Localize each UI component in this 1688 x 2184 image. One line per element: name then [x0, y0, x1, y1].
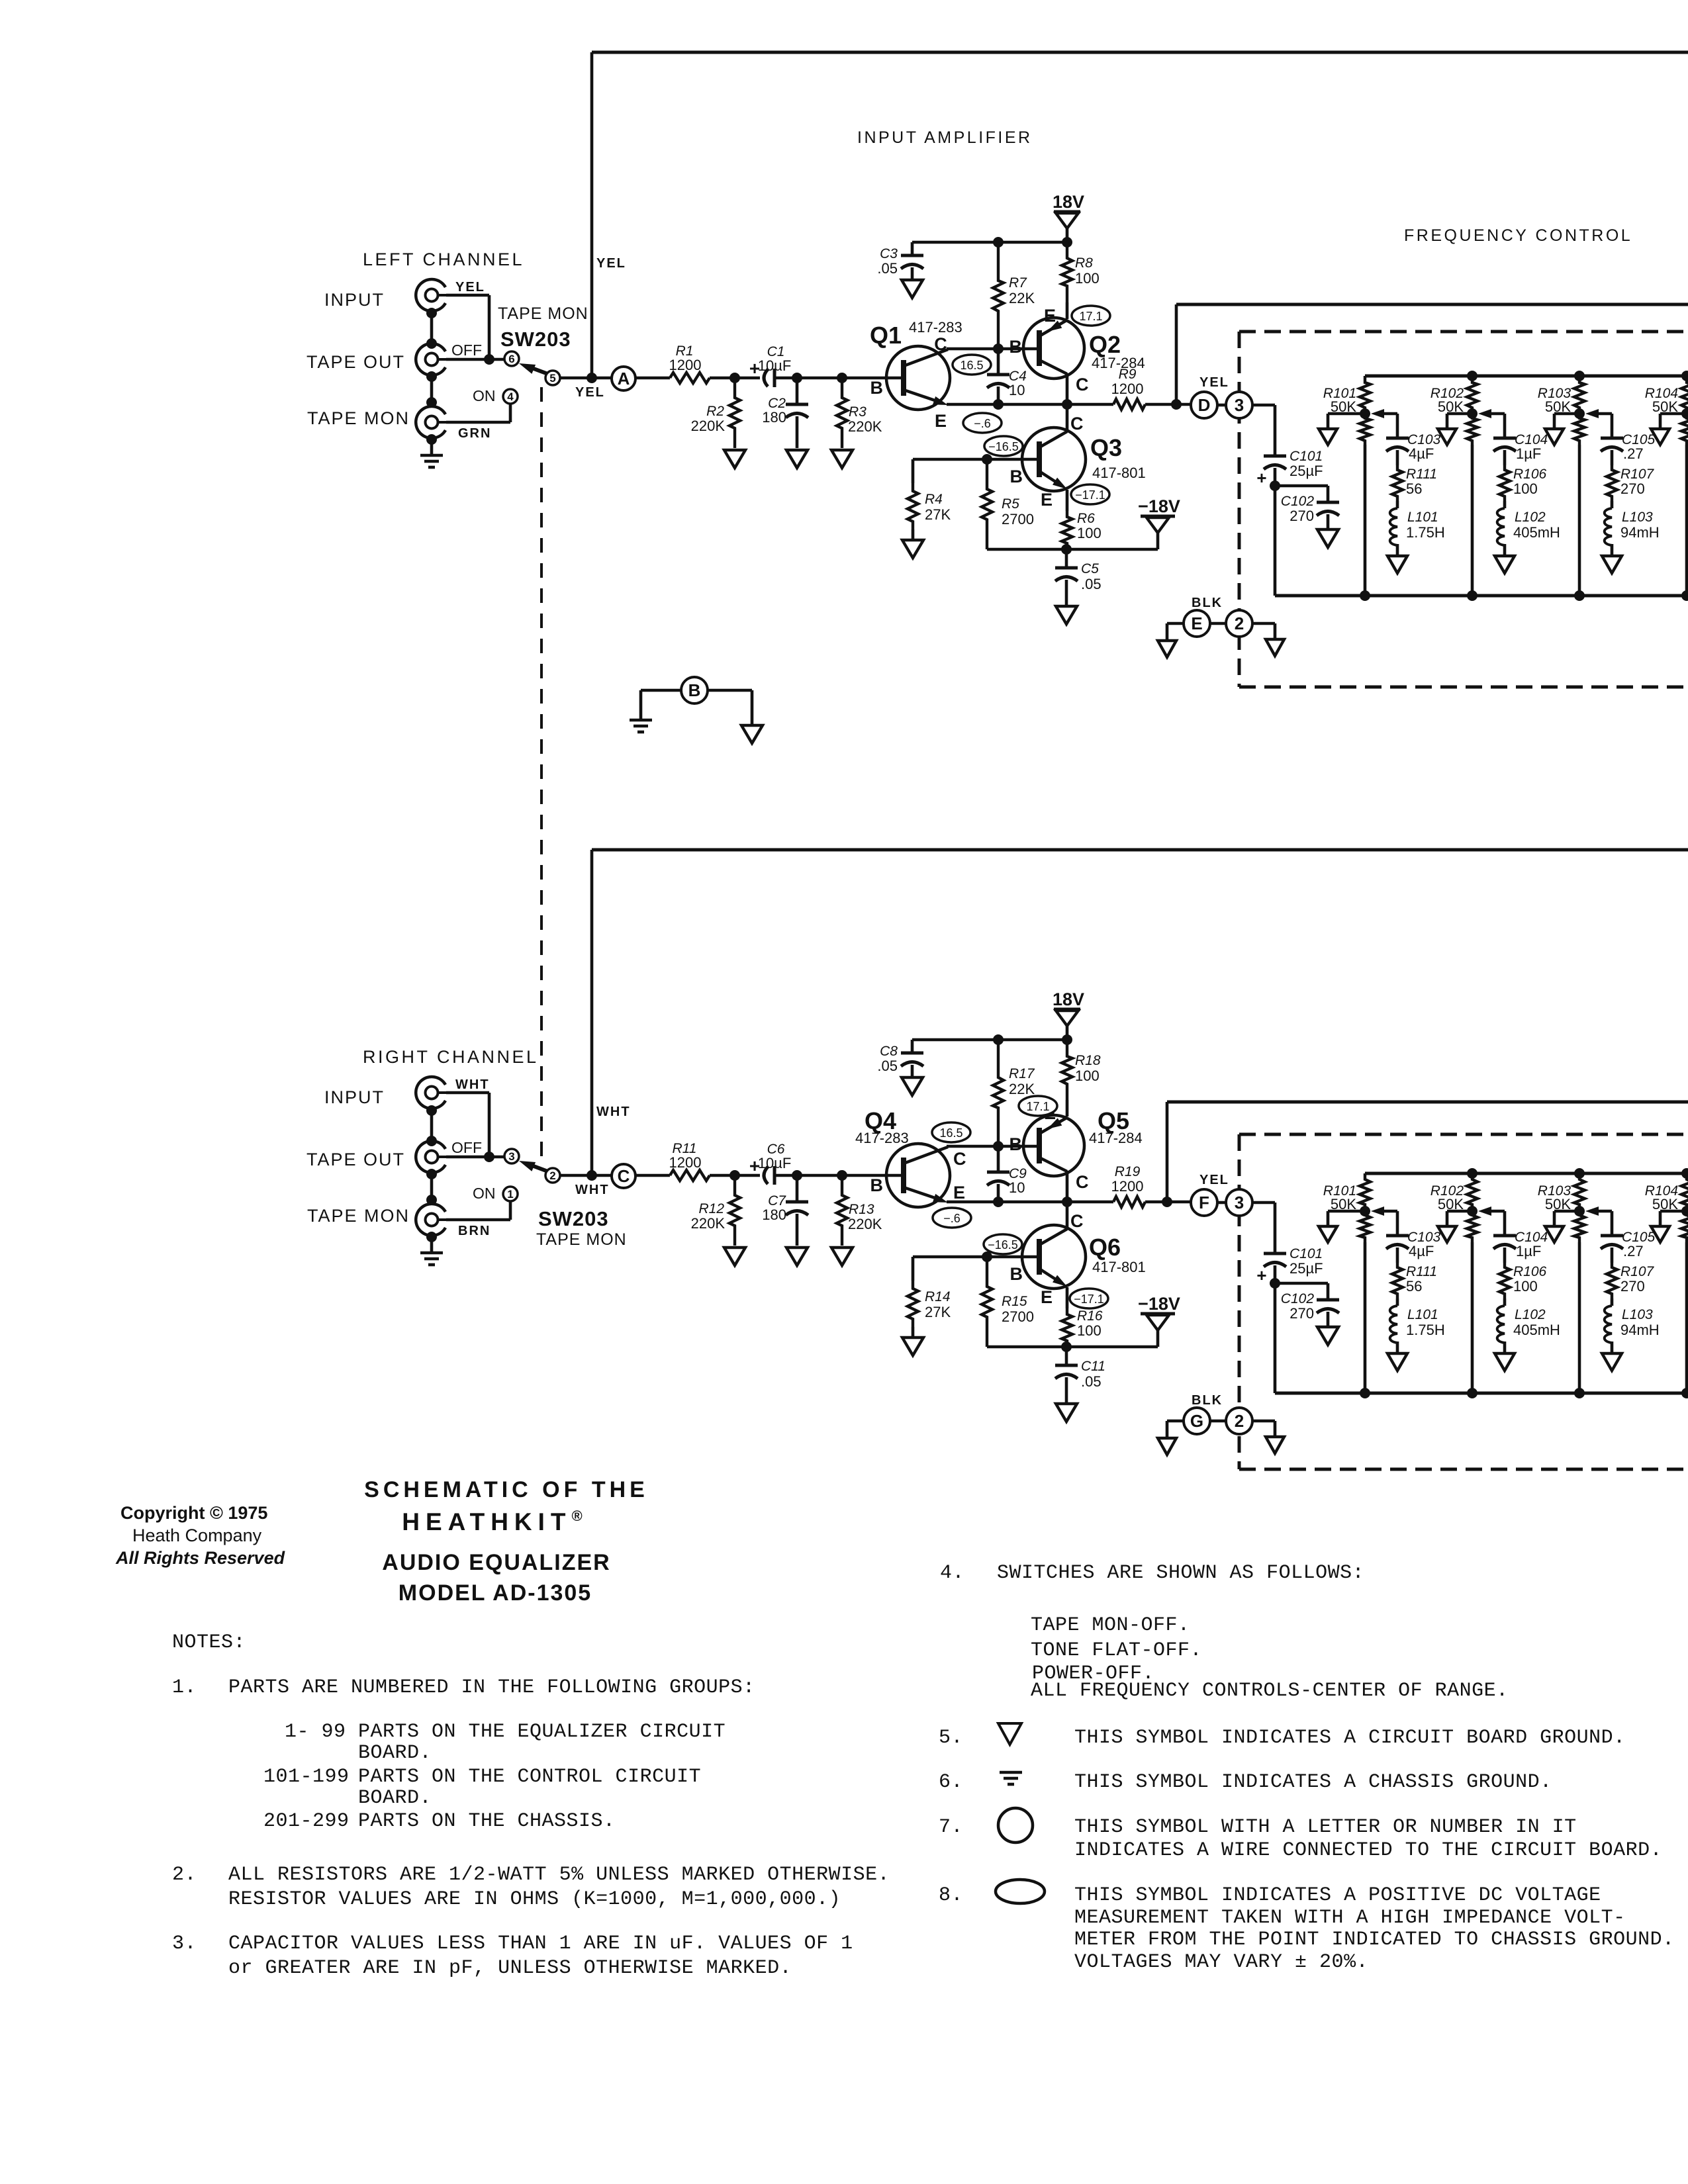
circuit board ground below L103 [1602, 1353, 1622, 1371]
svg-text:5.: 5. [939, 1727, 963, 1749]
svg-text:220K: 220K [848, 418, 882, 435]
potentiometer R104 50K [1681, 371, 1688, 381]
svg-text:INPUT AMPLIFIER: INPUT AMPLIFIER [857, 128, 1033, 147]
svg-text:BOARD.: BOARD. [358, 1787, 432, 1809]
wire Q4 emitter line [947, 1201, 1039, 1204]
svg-text:B: B [1009, 1134, 1023, 1154]
svg-text:C: C [953, 1149, 966, 1169]
svg-text:RESISTOR VALUES ARE IN OHMS (K: RESISTOR VALUES ARE IN OHMS (K=1000, M=1… [228, 1888, 841, 1911]
svg-text:C: C [1076, 1172, 1089, 1192]
svg-text:ALL RESISTORS ARE 1/2-WATT 5%: ALL RESISTORS ARE 1/2-WATT 5% UNLESS MAR… [228, 1864, 890, 1886]
svg-text:B: B [1009, 337, 1023, 357]
svg-text:L102: L102 [1515, 1307, 1546, 1322]
wire Q4 collector line [947, 1145, 1037, 1148]
svg-text:BLK: BLK [1192, 596, 1223, 610]
capacitor C1 10uF [764, 369, 768, 387]
svg-text:6: 6 [508, 353, 514, 365]
wire tape out jack to contact [446, 358, 504, 361]
circuit board ground below L101 [1387, 556, 1407, 573]
capacitor C104 1µF [1493, 1234, 1516, 1238]
svg-text:C: C [1070, 414, 1084, 433]
chassis ground below node B [630, 719, 652, 722]
svg-text:WHT: WHT [455, 1077, 490, 1092]
svg-text:OFF: OFF [451, 341, 482, 359]
resistor R106 100 [1499, 465, 1510, 501]
svg-text:TAPE OUT: TAPE OUT [306, 1150, 405, 1169]
circuit board ground below C3 [902, 280, 923, 298]
svg-text:TAPE OUT: TAPE OUT [306, 352, 405, 372]
chassis ground below jacks [420, 1251, 443, 1255]
svg-text:RIGHT CHANNEL: RIGHT CHANNEL [363, 1047, 539, 1067]
svg-text:R4: R4 [925, 492, 943, 507]
resistor R11 1200 [670, 1170, 710, 1181]
svg-text:1: 1 [507, 1188, 513, 1201]
svg-text:TONE FLAT-OFF.: TONE FLAT-OFF. [1031, 1639, 1202, 1662]
dashed switch linkage SW203 [540, 387, 543, 1166]
wire contact ON to tape mon jack [509, 1201, 512, 1220]
circuit board ground below C102 [1317, 529, 1338, 547]
svg-text:27K: 27K [925, 506, 951, 523]
wire -18V to junction [1066, 1345, 1158, 1349]
svg-text:.27: .27 [1623, 1243, 1644, 1259]
wire node F to 3 [1217, 1201, 1226, 1205]
node E [1184, 610, 1210, 637]
svg-text:HEATHKIT®: HEATHKIT® [402, 1508, 588, 1535]
svg-text:1.75H: 1.75H [1406, 1322, 1445, 1338]
svg-text:.05: .05 [1081, 1373, 1102, 1390]
capacitor C5 .05 [1065, 549, 1068, 568]
wire node 3 to C101 [1252, 404, 1275, 407]
wire Q5 emitter to R18 [1066, 1100, 1069, 1116]
svg-text:270: 270 [1620, 1278, 1645, 1295]
wire top feedback line right channel [592, 848, 1688, 852]
svg-text:10: 10 [1009, 382, 1025, 398]
circuit board ground below C11 [1056, 1404, 1077, 1422]
wire output feedback vertical [1175, 304, 1178, 404]
svg-text:B: B [1010, 467, 1023, 486]
wire C6 to Q4 base [774, 1174, 901, 1177]
svg-text:.27: .27 [1623, 445, 1644, 462]
wire vertical from top line to switch node [590, 850, 594, 1175]
resistor R6 100 [1062, 511, 1072, 549]
potentiometer R101 50K [1360, 1173, 1370, 1211]
capacitor C4 10 [997, 349, 1000, 375]
resistor R12 220K [729, 1175, 740, 1246]
svg-text:BOARD.: BOARD. [358, 1742, 432, 1764]
svg-text:+: + [1256, 468, 1266, 488]
svg-text:−17.1: −17.1 [1075, 488, 1105, 502]
wire node D to 3 [1217, 404, 1226, 407]
circuit board ground below L102 [1495, 1353, 1515, 1371]
capacitor C102 270 [1317, 501, 1339, 504]
jack INPUT [416, 279, 445, 311]
svg-text:R9: R9 [1119, 367, 1137, 382]
voltage -16.5 [984, 436, 1023, 456]
voltage -16.5 [984, 1234, 1022, 1254]
svg-text:417-284: 417-284 [1089, 1130, 1143, 1146]
wire wiper to C103 [1384, 1210, 1397, 1213]
node 2 [1226, 1408, 1252, 1434]
svg-text:405mH: 405mH [1513, 524, 1560, 541]
svg-text:C8: C8 [880, 1044, 898, 1059]
svg-text:220K: 220K [691, 1215, 726, 1232]
wire Q2 collector down [1066, 373, 1069, 404]
capacitor C7 180 [796, 1175, 799, 1202]
wire wiper left ground R102 [1447, 412, 1472, 416]
svg-text:YEL: YEL [596, 256, 626, 271]
svg-text:NOTES:: NOTES: [172, 1631, 246, 1654]
switch SW203 blade [528, 367, 551, 375]
svg-text:E: E [1044, 306, 1056, 326]
svg-text:THIS SYMBOL WITH A LETTER OR N: THIS SYMBOL WITH A LETTER OR NUMBER IN I… [1074, 1816, 1577, 1839]
wire tape out jack to contact [446, 1156, 504, 1159]
wire Q1 emitter line [947, 403, 1039, 406]
svg-text:YEL: YEL [1199, 375, 1229, 390]
wiper resistor lower half R103 [1574, 1211, 1585, 1242]
svg-text:or GREATER ARE IN pF, UNLESS O: or GREATER ARE IN pF, UNLESS OTHERWISE M… [228, 1957, 792, 1979]
node D [1191, 392, 1217, 418]
svg-text:R13: R13 [849, 1202, 874, 1217]
svg-text:D: D [1198, 395, 1211, 415]
svg-text:LEFT CHANNEL: LEFT CHANNEL [363, 250, 524, 269]
wire Q6 collector up [1066, 1202, 1069, 1228]
capacitor C101 25uF [1264, 455, 1286, 458]
svg-text:C11: C11 [1081, 1359, 1105, 1374]
svg-text:R111: R111 [1406, 1264, 1437, 1279]
circuit board ground below C2 [786, 450, 808, 468]
circuit board ground below L103 [1602, 556, 1622, 573]
wire node to R1 [635, 377, 670, 380]
svg-text:22K: 22K [1009, 1081, 1035, 1097]
resistor R16 100 [1062, 1308, 1072, 1347]
svg-text:C: C [1076, 375, 1089, 394]
wire R11 to C6 [710, 1174, 760, 1177]
svg-text:INPUT: INPUT [324, 290, 385, 310]
resistor R13 220K [837, 1175, 847, 1246]
inductor L102 405mH [1503, 501, 1507, 508]
circuit board ground below R3 [831, 450, 853, 468]
capacitor C8 .05 [911, 1040, 914, 1053]
svg-text:27K: 27K [925, 1304, 951, 1320]
svg-text:17.1: 17.1 [1026, 1100, 1049, 1113]
svg-text:2700: 2700 [1002, 511, 1034, 527]
capacitor C103 4µF [1386, 1234, 1409, 1238]
svg-text:Q3: Q3 [1090, 434, 1122, 461]
wire 18V rail [912, 1038, 1067, 1042]
wire jack shell column [430, 1109, 434, 1141]
circuit board ground below node B [741, 725, 763, 743]
svg-text:180: 180 [762, 1206, 786, 1223]
svg-text:R14: R14 [925, 1289, 951, 1304]
svg-text:7.: 7. [939, 1816, 963, 1839]
wire bottom bus [1275, 594, 1688, 598]
svg-text:10µF: 10µF [758, 357, 792, 374]
capacitor C2 180 [796, 378, 799, 404]
svg-text:PARTS ON THE CONTROL CIRCUIT: PARTS ON THE CONTROL CIRCUIT [358, 1766, 701, 1788]
circuit board ground below L101 [1387, 1353, 1407, 1371]
resistor R111 56 [1392, 1263, 1403, 1298]
svg-text:56: 56 [1406, 1278, 1422, 1295]
svg-text:All Rights Reserved: All Rights Reserved [115, 1548, 285, 1568]
svg-text:.05: .05 [1081, 576, 1102, 592]
svg-text:TAPE MON-OFF.: TAPE MON-OFF. [1031, 1614, 1190, 1637]
svg-text:R106: R106 [1513, 467, 1547, 482]
wire contact ON to tape mon jack [509, 404, 512, 422]
inductor L103 94mH [1611, 501, 1614, 508]
voltage -.6 [933, 1208, 971, 1228]
svg-text:L103: L103 [1622, 1307, 1653, 1322]
svg-text:YEL: YEL [575, 385, 605, 400]
node 3 [1226, 392, 1252, 418]
svg-text:TAPE MON: TAPE MON [307, 1206, 410, 1226]
svg-text:270: 270 [1289, 1305, 1314, 1322]
svg-text:405mH: 405mH [1513, 1322, 1560, 1338]
svg-text:R6: R6 [1077, 511, 1095, 526]
wire Q3 emitter down [1066, 490, 1069, 511]
capacitor C101 25uF [1264, 1252, 1286, 1255]
svg-text:R3: R3 [849, 404, 867, 420]
svg-text:6.: 6. [939, 1771, 963, 1794]
wire output feedback vertical [1166, 1102, 1169, 1202]
wire input jack to switch [446, 1091, 489, 1095]
wire jack shell column [430, 311, 434, 343]
svg-text:E: E [1041, 1287, 1053, 1307]
svg-text:100: 100 [1077, 1322, 1102, 1339]
inductor L101 1.75H [1396, 1298, 1399, 1306]
svg-text:56: 56 [1406, 480, 1422, 497]
circuit board ground below L102 [1495, 556, 1515, 573]
svg-text:C: C [618, 1166, 630, 1186]
svg-text:L101: L101 [1407, 510, 1438, 525]
svg-text:MODEL AD-1305: MODEL AD-1305 [399, 1580, 592, 1606]
wire wiper left ground R103 [1554, 1210, 1579, 1213]
inductor L101 1.75H [1396, 501, 1399, 508]
svg-text:B: B [688, 680, 701, 700]
svg-text:R107: R107 [1620, 1264, 1655, 1279]
svg-text:270: 270 [1620, 480, 1645, 497]
resistor R106 100 [1499, 1263, 1510, 1298]
dashed control board outline [1239, 330, 1688, 334]
wire -18V to junction [1066, 548, 1158, 551]
svg-text:100: 100 [1513, 1278, 1538, 1295]
svg-text:SW203: SW203 [500, 328, 571, 351]
wire wiper to C103 [1384, 412, 1397, 416]
circuit board ground below R13 [831, 1248, 853, 1265]
capacitor C105 .27 [1601, 1234, 1623, 1238]
wire bottom bus [1275, 1392, 1688, 1395]
capacitor C9 10 [997, 1146, 1000, 1172]
resistor R5 2700 [982, 459, 992, 549]
voltage 17.1 [1019, 1096, 1057, 1116]
voltage -.6 [963, 413, 1002, 433]
wire switch to node C [560, 1174, 612, 1177]
svg-text:4µF: 4µF [1409, 445, 1434, 462]
svg-text:100: 100 [1075, 270, 1100, 287]
transistor Q1 417-283 [886, 346, 950, 410]
circuit board ground below C102 [1317, 1327, 1338, 1345]
svg-text:F: F [1199, 1193, 1209, 1212]
wire top bus [1365, 1172, 1688, 1175]
resistor R107 270 [1607, 1263, 1617, 1298]
svg-text:AUDIO EQUALIZER: AUDIO EQUALIZER [382, 1550, 610, 1575]
wire node G to 2 [1210, 1420, 1226, 1423]
svg-text:G: G [1190, 1411, 1203, 1431]
wire 18V rail [912, 241, 1067, 244]
svg-text:3.: 3. [172, 1933, 197, 1955]
svg-text:Heath Company: Heath Company [132, 1525, 262, 1545]
capacitor C104 1µF [1493, 437, 1516, 440]
wire wiper left ground R101 [1328, 1210, 1365, 1213]
wire node B left to chassis ground [641, 689, 681, 692]
svg-text:B: B [870, 1175, 884, 1195]
circuit board ground below R14 [902, 1338, 923, 1355]
svg-text:METER FROM THE POINT INDICATED: METER FROM THE POINT INDICATED TO CHASSI… [1074, 1929, 1675, 1951]
svg-text:ALL FREQUENCY CONTROLS-CENTER: ALL FREQUENCY CONTROLS-CENTER OF RANGE. [1031, 1680, 1509, 1702]
svg-text:10: 10 [1009, 1179, 1025, 1196]
svg-text:1.: 1. [172, 1676, 197, 1699]
wire wiper to C105 [1599, 412, 1612, 416]
svg-text:E: E [953, 1183, 965, 1203]
svg-text:C101: C101 [1289, 449, 1323, 464]
svg-text:OFF: OFF [451, 1139, 482, 1156]
svg-text:TAPE MON: TAPE MON [498, 304, 588, 323]
transistor Q5 417-284 [1023, 1115, 1084, 1176]
svg-text:417-283: 417-283 [855, 1130, 909, 1146]
wire Q6 emitter down [1066, 1287, 1069, 1308]
svg-text:BRN: BRN [458, 1224, 491, 1238]
potentiometer R104 50K [1681, 1168, 1688, 1179]
wire R19 to node F [1145, 1201, 1192, 1204]
svg-text:1200: 1200 [1111, 1178, 1144, 1195]
wiper resistor lower half R102 [1467, 1211, 1477, 1242]
wire R5 to emitter junction [987, 548, 1066, 551]
node G [1184, 1408, 1210, 1434]
svg-text:TAPE MON: TAPE MON [307, 408, 410, 428]
svg-text:1- 99: 1- 99 [285, 1721, 346, 1743]
wire C1 to Q1 base [774, 377, 901, 380]
svg-text:220K: 220K [691, 418, 726, 434]
circuit board ground below R4 [902, 540, 923, 558]
svg-text:C3: C3 [880, 246, 898, 261]
wire R1 to C1 [710, 377, 760, 380]
node B [681, 677, 708, 704]
svg-text:2: 2 [1235, 1411, 1244, 1431]
voltage -17.1 [1071, 484, 1109, 504]
svg-text:R7: R7 [1009, 275, 1027, 291]
wire Q2 emitter to R8 [1066, 302, 1069, 319]
svg-text:THIS SYMBOL INDICATES A POSITI: THIS SYMBOL INDICATES A POSITIVE DC VOLT… [1074, 1884, 1601, 1907]
voltage -17.1 [1070, 1289, 1108, 1308]
wiper resistor lower half R103 [1574, 414, 1585, 445]
svg-text:17.1: 17.1 [1079, 310, 1102, 323]
svg-text:R16: R16 [1077, 1308, 1103, 1324]
transistor Q6 417-801 [1022, 1225, 1086, 1289]
svg-text:270: 270 [1289, 508, 1314, 524]
wire top feedback line [592, 51, 1688, 54]
svg-text:2: 2 [1235, 614, 1244, 633]
svg-text:25µF: 25µF [1289, 463, 1323, 479]
node A [612, 367, 635, 390]
svg-text:A: A [618, 369, 630, 388]
wire wiper left ground R101 [1328, 412, 1365, 416]
svg-text:−18V: −18V [1138, 1294, 1180, 1314]
resistor R8 100 [1062, 242, 1072, 302]
svg-text:−.6: −.6 [943, 1212, 961, 1225]
transistor Q2 417-284 [1023, 318, 1084, 379]
svg-text:R19: R19 [1115, 1164, 1141, 1179]
svg-text:101-199: 101-199 [263, 1766, 350, 1788]
wire wiper left ground R104 [1660, 1210, 1687, 1213]
wire Q6 base line [913, 1255, 1037, 1259]
svg-text:MEASUREMENT TAKEN WITH A HIGH: MEASUREMENT TAKEN WITH A HIGH IMPEDANCE … [1074, 1907, 1626, 1929]
svg-text:1µF: 1µF [1516, 445, 1541, 462]
jack TAPE OUT [416, 343, 445, 375]
svg-text:Q2: Q2 [1089, 331, 1121, 358]
wire Q3 collector up [1066, 404, 1069, 431]
wire wiper to C104 [1491, 1210, 1505, 1213]
resistor R15 2700 [982, 1257, 992, 1347]
svg-text:C5: C5 [1081, 561, 1099, 576]
svg-text:25µF: 25µF [1289, 1260, 1323, 1277]
svg-text:R107: R107 [1620, 467, 1655, 482]
svg-text:1200: 1200 [669, 357, 702, 373]
svg-text:SCHEMATIC OF THE: SCHEMATIC OF THE [364, 1477, 649, 1502]
svg-text:.05: .05 [877, 260, 898, 277]
svg-text:SW203: SW203 [538, 1207, 609, 1230]
svg-text:3: 3 [1235, 1193, 1244, 1212]
jack INPUT [416, 1077, 445, 1109]
voltage 16.5 [953, 355, 991, 375]
svg-text:PARTS ON THE EQUALIZER CIRCUIT: PARTS ON THE EQUALIZER CIRCUIT [358, 1721, 726, 1743]
chassis ground below jacks [420, 454, 443, 457]
svg-text:L103: L103 [1622, 510, 1653, 525]
wire node E to ground [1167, 622, 1184, 625]
svg-text:−.6: −.6 [974, 417, 991, 430]
transistor Q4 417-283 [886, 1144, 950, 1207]
wire wiper left ground R104 [1660, 412, 1687, 416]
svg-text:100: 100 [1075, 1068, 1100, 1084]
svg-text:417-283: 417-283 [909, 319, 962, 336]
voltage 16.5 [932, 1122, 970, 1142]
svg-text:94mH: 94mH [1620, 524, 1660, 541]
svg-text:.05: .05 [877, 1058, 898, 1074]
circuit board ground below R12 [724, 1248, 745, 1265]
svg-text:INDICATES A WIRE CONNECTED TO: INDICATES A WIRE CONNECTED TO THE CIRCUI… [1074, 1839, 1662, 1862]
svg-text:WHT: WHT [575, 1183, 610, 1197]
svg-text:+: + [1256, 1265, 1266, 1285]
resistor R4 27K [912, 459, 915, 483]
svg-text:2: 2 [549, 1169, 555, 1182]
svg-text:4µF: 4µF [1409, 1243, 1434, 1259]
svg-text:C: C [934, 334, 947, 354]
resistor R7 22K [993, 242, 1004, 349]
svg-text:R17: R17 [1009, 1066, 1035, 1081]
wire input jack to switch [446, 294, 489, 297]
svg-text:INPUT: INPUT [324, 1087, 385, 1107]
svg-text:R5: R5 [1002, 496, 1019, 512]
potentiometer R102 50K [1467, 1168, 1477, 1179]
svg-text:417-801: 417-801 [1092, 465, 1146, 481]
resistor R111 56 [1392, 465, 1403, 501]
wire node B right to board ground [708, 689, 752, 692]
svg-text:16.5: 16.5 [939, 1126, 962, 1140]
wiper resistor lower half R101 [1360, 414, 1370, 445]
capacitor C3 .05 [911, 242, 914, 255]
inductor L102 405mH [1503, 1298, 1507, 1306]
svg-text:Q1: Q1 [870, 322, 902, 349]
resistor R17 22K [993, 1040, 1004, 1146]
resistor R18 100 [1062, 1040, 1072, 1100]
